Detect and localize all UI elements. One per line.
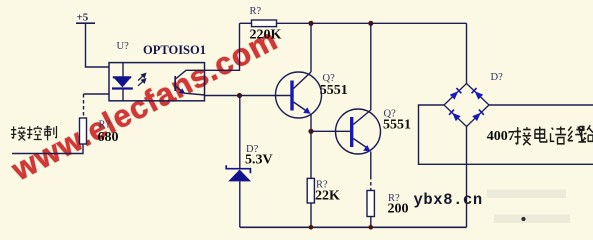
wire node E to Q1 base <box>240 95 291 97</box>
transistor Q2 <box>336 109 412 155</box>
wire bridge left to phone line L bend <box>419 105 593 164</box>
resistor R200 <box>367 191 409 217</box>
svg-text:680: 680 <box>98 130 119 145</box>
wire rail to bridge top <box>466 23 468 83</box>
char zhi <box>44 126 52 141</box>
wire node F to Q2 base <box>311 130 350 132</box>
faint erased watermark box 1 <box>487 190 566 199</box>
char dian <box>535 127 547 142</box>
wire node F down to R22K <box>310 131 312 178</box>
wire +5 to optocoupler pin1 <box>86 23 110 67</box>
wire R200 to rail <box>370 217 372 228</box>
wire opto emitter to node E <box>205 95 240 97</box>
wire Q2 collector to node B <box>370 23 372 110</box>
char kong <box>27 126 32 138</box>
char jie <box>11 126 16 138</box>
bridge diode top-left <box>450 88 462 100</box>
char jie <box>515 127 521 144</box>
phototransistor inside optocoupler <box>175 70 205 95</box>
bottom rail wire <box>240 226 467 228</box>
svg-text:5.3V: 5.3V <box>245 153 273 168</box>
wire node to resistor R680 (dashed artifact) <box>83 94 85 118</box>
faint erased watermark box 2 <box>494 215 570 224</box>
bridge rectifier D2 diamond <box>444 72 503 127</box>
LED light arrows <box>138 73 146 85</box>
char lu <box>578 127 586 142</box>
wire opto collector to R220K line <box>205 23 240 70</box>
label 4007 <box>487 129 515 144</box>
zener diode D1 5.3V <box>226 144 272 181</box>
transistor Q1 <box>276 72 348 118</box>
top supply rail wire <box>277 22 467 24</box>
svg-text:R?: R? <box>250 6 262 17</box>
wire R680 to control terminal <box>12 144 83 154</box>
wire zener to ground rail <box>239 181 241 227</box>
LED inside optocoupler <box>112 63 133 101</box>
svg-text:R?: R? <box>99 120 111 131</box>
svg-text:5551: 5551 <box>320 83 348 98</box>
optocoupler U1 box <box>109 41 206 101</box>
label 接控制 (control input) <box>11 126 57 141</box>
wire R22K to rail <box>310 203 312 227</box>
wire node E down to zener <box>239 96 241 169</box>
svg-text:ybx8.cn: ybx8.cn <box>414 191 483 209</box>
wire Q1 emitter down to node F <box>310 114 312 132</box>
bridge diode bottom-right <box>472 110 484 122</box>
char hua <box>551 127 567 144</box>
svg-text:OPTOISO1: OPTOISO1 <box>143 43 206 57</box>
bridge diode top-right <box>472 88 484 100</box>
junction node F <box>308 129 313 134</box>
junction node A <box>308 21 313 26</box>
svg-text:220K: 220K <box>250 28 282 43</box>
junction node B <box>368 21 373 26</box>
svg-text:200: 200 <box>388 202 409 217</box>
svg-text:+5: +5 <box>77 12 89 24</box>
wire Q2 emitter to R200 (dashed artifact) <box>370 152 372 191</box>
wire bridge bottom to rail <box>466 127 468 228</box>
resistor R680 <box>80 118 119 145</box>
svg-text:D?: D? <box>491 72 504 83</box>
svg-text:4007: 4007 <box>487 129 515 144</box>
wire Q1 collector to node A <box>310 23 312 72</box>
stray dark dot <box>521 217 525 221</box>
resistor R220K <box>240 6 282 43</box>
svg-text:5551: 5551 <box>383 117 411 132</box>
wire bridge right to phone line <box>489 104 593 106</box>
resistor R22K <box>307 178 340 203</box>
junction node H <box>369 225 374 230</box>
label 接电话线路 (to phone line) <box>515 125 593 145</box>
junction node E (opto emitter / Q1 base / zener) <box>237 93 242 98</box>
svg-text:22K: 22K <box>315 189 340 204</box>
watermark ybx8.cn <box>414 191 483 209</box>
bridge diode bottom-left <box>449 110 461 122</box>
svg-text:U?: U? <box>117 41 130 52</box>
char xian <box>568 127 585 142</box>
junction node G <box>309 225 314 230</box>
wire optocoupler pin2 to node <box>84 93 110 95</box>
power +5 terminal <box>76 12 95 24</box>
watermark www.elecfans.com <box>5 21 283 187</box>
